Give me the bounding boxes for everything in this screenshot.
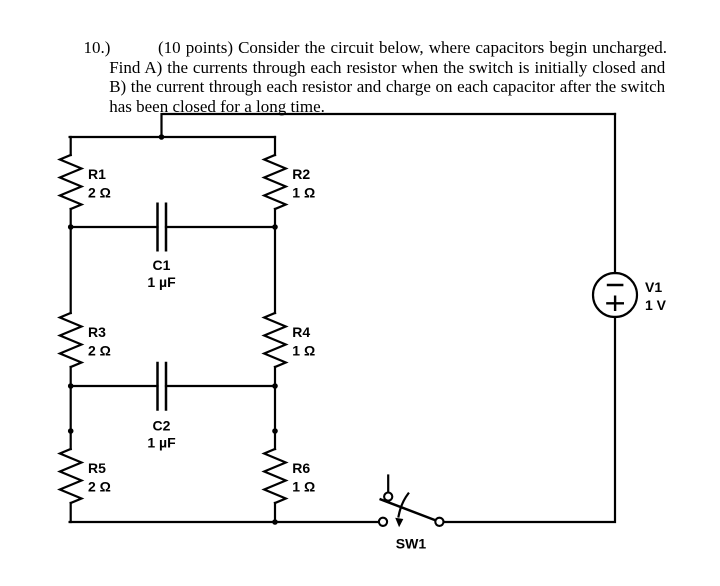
svg-text:R4: R4	[292, 324, 310, 340]
problem text line 1 number	[84, 38, 111, 58]
resistor R5	[60, 449, 82, 503]
wire right rail upper	[614, 114, 616, 273]
wire left branch	[70, 137, 72, 522]
wire C2 row	[71, 385, 275, 387]
node C1 left	[68, 224, 74, 230]
svg-text:1 Ω: 1 Ω	[292, 185, 315, 201]
problem text line 4	[109, 97, 325, 117]
node C2 right	[272, 383, 278, 389]
svg-text:SW1: SW1	[396, 535, 427, 551]
wire top rail	[162, 114, 616, 137]
node C1 right	[272, 224, 278, 230]
svg-text:R3: R3	[88, 324, 106, 340]
problem text line 3	[109, 77, 665, 97]
node bottom right branch	[272, 519, 278, 525]
svg-text:R6: R6	[292, 460, 310, 476]
switch SW1 right terminal	[435, 518, 443, 526]
V1 plus sign	[607, 297, 622, 310]
switch SW1 top contact	[384, 493, 392, 501]
node top junction	[159, 134, 165, 140]
switch SW1 blade	[381, 499, 436, 520]
switch SW1 stub	[387, 476, 389, 493]
svg-text:V1: V1	[645, 279, 662, 295]
switch SW1 arrow arc	[399, 494, 409, 517]
svg-text:1 µF: 1 µF	[147, 434, 176, 450]
svg-text:R2: R2	[292, 166, 310, 182]
capacitor C2	[158, 363, 167, 410]
voltage source V1 circle	[593, 273, 637, 317]
node C2 left	[68, 383, 74, 389]
svg-text:1 Ω: 1 Ω	[292, 343, 315, 359]
switch SW1 left terminal	[379, 518, 387, 526]
svg-text:R5: R5	[88, 460, 106, 476]
problem text line 2	[109, 58, 665, 78]
svg-text:C2: C2	[153, 418, 171, 434]
wire bottom rail left	[70, 521, 379, 523]
svg-text:R1: R1	[88, 166, 106, 182]
wire right rail lower	[444, 317, 615, 522]
wire C1 row	[71, 226, 275, 228]
switch SW1 arrowhead	[395, 518, 403, 527]
svg-text:2 Ω: 2 Ω	[88, 343, 111, 359]
svg-text:1 Ω: 1 Ω	[292, 479, 315, 495]
resistor R1	[60, 155, 82, 209]
resistor R2	[264, 155, 286, 209]
capacitor C1	[158, 204, 167, 251]
wire middle branch	[274, 137, 276, 522]
svg-text:2 Ω: 2 Ω	[88, 479, 111, 495]
resistor R6	[264, 449, 286, 503]
svg-text:1 V: 1 V	[645, 297, 667, 313]
resistor R3	[60, 313, 82, 367]
problem text line 1	[158, 38, 667, 58]
node right mid	[272, 428, 278, 434]
resistor R4	[264, 313, 286, 367]
V1 minus sign	[608, 284, 622, 286]
svg-text:C1: C1	[153, 257, 171, 273]
node left mid	[68, 428, 74, 434]
svg-text:2 Ω: 2 Ω	[88, 185, 111, 201]
svg-text:1 µF: 1 µF	[147, 274, 176, 290]
wire second rail	[70, 136, 275, 138]
